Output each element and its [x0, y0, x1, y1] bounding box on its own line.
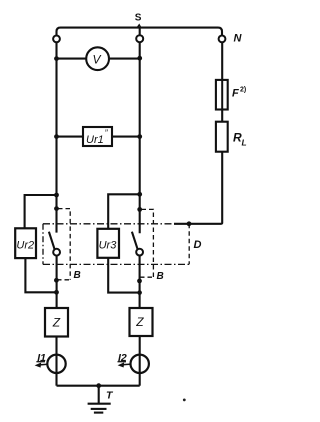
- svg-text:B: B: [157, 271, 164, 282]
- svg-text:Z: Z: [135, 315, 144, 329]
- svg-text:Ur3: Ur3: [99, 240, 118, 252]
- svg-text:V: V: [93, 53, 102, 67]
- svg-text:2): 2): [240, 87, 246, 94]
- svg-text:I2: I2: [118, 352, 127, 364]
- svg-text:I1: I1: [37, 352, 46, 364]
- svg-text:L: L: [242, 138, 247, 148]
- svg-text:S: S: [135, 13, 142, 24]
- svg-text:F: F: [232, 88, 239, 100]
- svg-text:Ur2: Ur2: [16, 240, 34, 252]
- svg-text:N: N: [234, 33, 243, 45]
- svg-text:D: D: [194, 239, 202, 251]
- svg-text:Ur1: Ur1: [86, 134, 104, 146]
- svg-text:Z: Z: [52, 315, 61, 329]
- svg-text:B: B: [74, 270, 81, 281]
